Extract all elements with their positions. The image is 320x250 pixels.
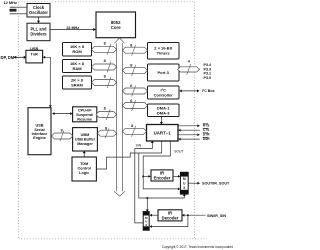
svg-text:SOUT/IR_SOUT: SOUT/IR_SOUT xyxy=(202,182,230,186)
2 x 16-bit timers box xyxy=(148,43,180,60)
svg-text:RAM: RAM xyxy=(72,66,82,71)
svg-text:I²C Bus: I²C Bus xyxy=(202,89,215,93)
svg-text:Copyright © 2017, Texas Instru: Copyright © 2017, Texas Instruments Inco… xyxy=(162,245,233,249)
wire 24 MHz PLL to 8052 core xyxy=(50,26,96,31)
svg-text:CPU-I/F: CPU-I/F xyxy=(78,109,92,113)
svg-text:8: 8 xyxy=(104,75,106,79)
wire DMA to UART xyxy=(160,117,163,125)
svg-text:TDM: TDM xyxy=(80,162,88,166)
wire clock oscillator to PLL xyxy=(37,17,40,23)
wire mux select from TDM and UART to both MUXes xyxy=(96,142,185,212)
svg-text:8: 8 xyxy=(105,127,107,131)
wire SIN/IR_SIN pin to IR decoder and MUX2 xyxy=(150,214,206,228)
pin DTR xyxy=(203,133,210,137)
bus arrow trunk to port 3 xyxy=(122,64,147,76)
bus arrow SRAM to trunk xyxy=(92,75,117,88)
wire SIN return: MUX2 output up into UART xyxy=(135,141,154,223)
svg-text:Dividers: Dividers xyxy=(30,31,47,36)
IR encoder box xyxy=(151,170,173,181)
wire UART DTR output xyxy=(178,133,200,136)
wire UART RTS output xyxy=(178,124,200,127)
bus arrow trunk to timers xyxy=(122,44,147,56)
PLL and dividers box xyxy=(27,23,50,41)
svg-text:SIN/IR_SIN: SIN/IR_SIN xyxy=(207,214,226,218)
svg-text:8: 8 xyxy=(61,128,63,132)
svg-text:4: 4 xyxy=(188,59,191,63)
svg-text:8: 8 xyxy=(104,59,106,63)
svg-text:M: M xyxy=(183,177,186,181)
crystal Y1 xyxy=(10,7,17,14)
wire SOUT from UART down to IR encoder and MUX1 xyxy=(142,141,180,190)
CPU-I/F suspend resume box xyxy=(73,107,97,122)
svg-text:24 MHz: 24 MHz xyxy=(66,26,79,30)
bus arrow trunk to I2C controller xyxy=(122,84,147,96)
svg-text:8: 8 xyxy=(130,44,132,48)
svg-text:Logic: Logic xyxy=(79,171,89,175)
svg-text:DP, DM: DP, DM xyxy=(1,55,15,60)
svg-text:SOUT: SOUT xyxy=(174,149,183,153)
svg-text:Control: Control xyxy=(77,167,91,171)
svg-text:ROM: ROM xyxy=(72,49,82,54)
pin CTS xyxy=(203,128,210,132)
bus arrow trunk to UART xyxy=(122,124,146,137)
wire IR encoder to MUX1 xyxy=(173,175,180,178)
svg-text:UART−1: UART−1 xyxy=(154,131,172,136)
svg-text:Encoder: Encoder xyxy=(154,175,171,180)
2K x 8 SRAM box xyxy=(63,76,92,89)
svg-text:UBM: UBM xyxy=(81,133,90,137)
svg-text:X: X xyxy=(145,223,147,227)
svg-text:8: 8 xyxy=(130,64,132,68)
svg-text:DMA-3: DMA-3 xyxy=(157,110,170,115)
bus arrow trunk to DMA xyxy=(122,99,147,111)
port 3 box xyxy=(148,64,180,81)
svg-text:USB: USB xyxy=(30,46,38,51)
svg-text:SIN: SIN xyxy=(136,144,142,148)
USB serial interface engine box xyxy=(28,108,51,155)
MUX1 (SOUT mux) xyxy=(180,172,188,194)
svg-text:DTR: DTR xyxy=(203,133,210,137)
clock oscillator box xyxy=(27,4,50,18)
svg-text:TxR: TxR xyxy=(31,51,39,56)
wire USB TxR to SIE (bidirectional, right then down) xyxy=(43,56,52,108)
svg-text:USB Buffer: USB Buffer xyxy=(75,137,96,141)
svg-text:P3.0: P3.0 xyxy=(204,76,212,80)
svg-text:CTS: CTS xyxy=(203,128,210,132)
pin DSR xyxy=(203,137,211,141)
svg-text:Manager: Manager xyxy=(77,142,93,146)
wire crystal to clock oscillator (pin 1) xyxy=(17,6,27,8)
svg-text:Engine: Engine xyxy=(33,136,46,140)
IR decoder box xyxy=(158,210,182,221)
svg-text:SRAM: SRAM xyxy=(71,82,83,87)
svg-text:8: 8 xyxy=(131,124,133,128)
chip boundary dotted border xyxy=(19,2,207,239)
UART-1 box xyxy=(147,125,179,142)
USB TxR transceiver box xyxy=(26,46,43,63)
wire SIE to CPU-I/F (bidirectional) xyxy=(52,112,72,115)
svg-text:8: 8 xyxy=(104,42,106,46)
svg-text:6: 6 xyxy=(130,99,132,103)
bus arrow port 3 to P3 pins xyxy=(178,59,200,74)
UBM USB buffer manager box xyxy=(73,128,98,151)
svg-text:Decoder: Decoder xyxy=(162,215,179,220)
bus arrow UBM to trunk xyxy=(97,127,116,139)
svg-text:DSR: DSR xyxy=(203,137,211,141)
bus arrow SIE to UBM xyxy=(52,128,73,141)
svg-text:Core: Core xyxy=(111,25,121,30)
TDM control logic box xyxy=(72,157,96,181)
I2C controller box xyxy=(148,86,180,99)
bus arrow ROM to trunk xyxy=(92,42,117,55)
svg-text:Timers: Timers xyxy=(157,51,171,56)
svg-text:Suspend/: Suspend/ xyxy=(76,113,94,117)
10K x 8 ROM box xyxy=(63,43,92,57)
wire UART CTS input xyxy=(178,129,200,132)
16K x 8 RAM box xyxy=(63,60,92,73)
wire MUX1 to SOUT/IR_SOUT pin xyxy=(188,182,200,185)
MUX2 (SIN mux) xyxy=(143,212,149,231)
svg-text:12 MHz: 12 MHz xyxy=(4,0,17,5)
bus arrow CPU-I/F to trunk xyxy=(96,107,117,120)
wire crystal to clock oscillator (pin 2) xyxy=(17,13,27,15)
svg-text:Oscillator: Oscillator xyxy=(29,10,48,15)
wire DP DM to USB TxR (bidirectional) xyxy=(14,56,27,59)
svg-text:Port 3: Port 3 xyxy=(158,70,170,75)
wire TDM to UBM xyxy=(83,151,86,157)
8052 core U-core xyxy=(96,12,136,38)
svg-text:6: 6 xyxy=(130,84,132,88)
svg-text:Resume: Resume xyxy=(77,118,92,122)
svg-text:8: 8 xyxy=(104,107,106,111)
wire I2C controller to I2C bus pin (bidirectional) xyxy=(179,89,214,93)
DMA-1 DMA-3 box xyxy=(148,104,180,117)
central data bus trunk (hollow, arrow up into core, arrow down) xyxy=(114,38,125,196)
svg-text:Controller: Controller xyxy=(154,92,174,97)
bus arrow RAM to trunk xyxy=(92,59,117,72)
wire UART DSR input xyxy=(178,138,200,141)
pin RTS xyxy=(203,123,210,127)
svg-text:RTS: RTS xyxy=(203,123,210,127)
wire IR decoder to MUX2 xyxy=(150,214,158,217)
